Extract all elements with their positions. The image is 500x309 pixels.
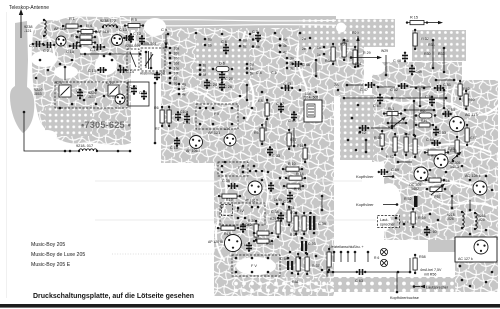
- resistor R20: [254, 220, 258, 241]
- resistor R15: [406, 21, 428, 25]
- copper trace: long horizontal bus traces: [120, 16, 336, 30]
- capacitor C33: [267, 146, 273, 156]
- coil 9218-026: [461, 211, 464, 229]
- resistor R42: [458, 80, 462, 100]
- IF can pad field (left, dial area): [45, 106, 92, 136]
- solder pins 4a-3c: [279, 38, 294, 71]
- svg-text:R 37: R 37: [312, 264, 320, 268]
- svg-text:F II: F II: [214, 112, 219, 116]
- svg-text:R23: R23: [288, 206, 294, 210]
- copper trace: right patch near output stage: [428, 234, 458, 252]
- wire W29: [385, 55, 388, 76]
- resistor R1: [62, 24, 82, 28]
- capacitor C42: [240, 223, 246, 233]
- svg-text:7305-504: 7305-504: [141, 42, 156, 46]
- copper trace: antenna strip: [10, 21, 34, 133]
- capacitor C18b: [174, 137, 180, 147]
- capacitor C16: [93, 44, 106, 50]
- wire R33 vertical: [432, 39, 435, 70]
- svg-text:C 14: C 14: [126, 70, 134, 74]
- capacitor C51: [434, 85, 445, 91]
- svg-text:Druckschaltungsplatte, auf die: Druckschaltungsplatte, auf die Lötseite …: [33, 293, 194, 300]
- svg-text:AC 127 k: AC 127 k: [458, 257, 473, 261]
- copper trace: right lower area: [384, 158, 498, 240]
- svg-text:C 3: C 3: [56, 81, 62, 85]
- wire: C56 bus: [405, 109, 434, 111]
- svg-text:Netzteilanschlußbu. +: Netzteilanschlußbu. +: [329, 245, 364, 249]
- svg-text:C 47: C 47: [360, 88, 368, 92]
- svg-text:12: 12: [220, 205, 224, 209]
- wire: speaker link: [469, 200, 471, 210]
- wire: volume link: [413, 101, 415, 135]
- svg-text:C 55: C 55: [447, 108, 455, 112]
- resistor R14: [285, 176, 306, 180]
- resistor R60 (oval): [415, 113, 437, 118]
- transformer box F IV: [220, 203, 265, 225]
- svg-text:R 21: R 21: [290, 211, 297, 215]
- resistor R21: [294, 212, 298, 235]
- svg-text:C49: C49: [415, 70, 422, 74]
- capacitor C52: [398, 83, 409, 89]
- svg-text:4e: 4e: [182, 93, 186, 97]
- wire: R42 top link: [436, 79, 454, 81]
- capacitor C4: [77, 89, 83, 100]
- resistor RL8: [425, 178, 445, 182]
- resistor R27: [253, 239, 273, 243]
- resistor R10: [282, 167, 303, 171]
- svg-text:C 63: C 63: [355, 279, 363, 283]
- capacitor C44: [246, 242, 252, 252]
- svg-text:Laut-: Laut-: [380, 218, 389, 222]
- svg-text:C 46: C 46: [302, 63, 310, 67]
- svg-text:2a: 2a: [302, 37, 306, 41]
- label 1a: [323, 46, 326, 49]
- svg-text:F V: F V: [251, 264, 257, 268]
- wire R29 vertical arrow: [356, 36, 359, 67]
- label 2a: [309, 37, 312, 40]
- svg-text:R 52: R 52: [404, 197, 412, 201]
- svg-text:C 8: C 8: [256, 71, 262, 75]
- resistor R34: [331, 43, 335, 65]
- resistor R37: [327, 248, 331, 271]
- svg-text:C 60: C 60: [429, 230, 437, 234]
- transistor T5 AF126: [248, 181, 262, 195]
- svg-text:sprecher: sprecher: [380, 223, 396, 227]
- svg-text:C 51: C 51: [443, 83, 451, 87]
- resistor R31: [353, 46, 357, 68]
- svg-text:W29: W29: [381, 49, 388, 53]
- capacitor C23: [141, 90, 147, 100]
- output transistor box: [455, 237, 497, 262]
- wire lautsprecher lead: [414, 286, 420, 288]
- svg-text:RL8: RL8: [443, 179, 450, 183]
- capacitor C49: [409, 65, 415, 76]
- svg-text:C 53: C 53: [308, 242, 316, 246]
- svg-text:AF 106 I: AF 106 I: [186, 149, 200, 153]
- copper trace: connector run: [372, 62, 462, 80]
- svg-text:6b: 6b: [208, 44, 212, 48]
- IF can pad field (mid right): [340, 95, 374, 160]
- svg-text:C 24: C 24: [209, 83, 217, 87]
- capacitor C56: [429, 96, 435, 107]
- page edge artifact: [6, 12, 8, 298]
- capacitor C59: [378, 169, 389, 175]
- capacitor C37: [278, 103, 284, 113]
- svg-text:3a: 3a: [290, 57, 294, 61]
- antenna arrow: [19, 9, 23, 38]
- svg-text:5f: 5f: [203, 73, 206, 77]
- svg-text:C 34: C 34: [283, 200, 291, 204]
- svg-text:4g: 4g: [182, 83, 186, 87]
- IF can pad field (oscillator block): [299, 19, 395, 47]
- copper trace: right middle area: [372, 80, 498, 162]
- resistor R6: [160, 106, 164, 127]
- svg-text:R16: R16: [297, 144, 304, 148]
- resistor R46: [415, 123, 434, 127]
- svg-text:C42: C42: [245, 223, 252, 227]
- coil L2 9238-172: [102, 25, 118, 28]
- capacitor C12: [128, 33, 134, 43]
- svg-text:C 37: C 37: [276, 102, 284, 106]
- svg-text:7A: 7A: [334, 83, 339, 87]
- svg-text:AF 126 II: AF 126 II: [245, 199, 258, 203]
- wire R29 horizontal arrow: [350, 56, 382, 59]
- resistor R26: [253, 231, 273, 235]
- svg-text:4a: 4a: [283, 38, 287, 42]
- page rule line: [95, 219, 376, 221]
- svg-text:1c: 1c: [317, 53, 321, 57]
- svg-text:R25: R25: [270, 217, 276, 221]
- svg-text:D 6: D 6: [219, 62, 225, 66]
- svg-text:C 39: C 39: [318, 222, 326, 226]
- transistor circle left of C21: [115, 94, 125, 104]
- svg-text:1a 5b: 1a 5b: [274, 198, 282, 202]
- svg-text:C 52: C 52: [390, 88, 398, 92]
- capacitor C24: [204, 79, 210, 89]
- transformer box F V: [232, 255, 280, 276]
- svg-text:AC 117r: AC 117r: [465, 113, 479, 117]
- svg-text:•7305-625 •: •7305-625 •: [81, 120, 131, 130]
- capacitor C7: [255, 32, 261, 43]
- svg-text:F IV: F IV: [237, 209, 244, 213]
- svg-text:10c: 10c: [174, 57, 180, 61]
- transistor T2 AF116: [112, 35, 123, 46]
- label 2b: [309, 47, 312, 50]
- svg-text:C 12: C 12: [133, 32, 141, 36]
- svg-text:R 2: R 2: [71, 34, 77, 38]
- svg-text:C 18: C 18: [170, 146, 178, 150]
- transistor T7 AC117: [450, 117, 465, 132]
- svg-text:C 15: C 15: [88, 69, 96, 73]
- capacitor C26: [219, 81, 225, 91]
- resistor R8: [265, 99, 269, 120]
- svg-text:Kopfhörer: Kopfhörer: [356, 174, 374, 179]
- wire: headphone jack vertical: [409, 258, 411, 272]
- svg-text:5c: 5c: [250, 67, 254, 71]
- svg-text:R30: R30: [424, 52, 431, 56]
- wire: antenna ground run: [24, 112, 79, 151]
- IF transformer box F II: [196, 104, 238, 129]
- resistor R50: [464, 90, 468, 110]
- svg-text:R19: R19: [226, 198, 233, 202]
- resistor R19: [218, 194, 241, 198]
- resistor R44: [404, 133, 408, 156]
- resistor R54: [424, 150, 449, 155]
- tuning gang dashed box: [55, 82, 127, 108]
- svg-text:C 33: C 33: [272, 154, 280, 158]
- wire audio bus: [378, 86, 395, 88]
- svg-text:C 23: C 23: [139, 91, 147, 95]
- svg-text:C10a: C10a: [180, 110, 188, 114]
- resistor R17: [287, 129, 291, 150]
- transistor T11 AC127: [474, 240, 488, 254]
- svg-text:R 11: R 11: [294, 187, 301, 191]
- junction dots field: [167, 33, 170, 36]
- svg-text:C 58: C 58: [426, 138, 434, 142]
- svg-text:R56: R56: [450, 149, 457, 153]
- wire: rail C51-C56: [443, 90, 445, 108]
- resistor R5: [124, 24, 144, 28]
- transistor T8 OC305: [434, 154, 448, 168]
- resistor R22: [302, 212, 306, 235]
- svg-text:C 59: C 59: [391, 168, 399, 172]
- potentiometer R51: [387, 117, 408, 129]
- svg-text:C 44: C 44: [240, 243, 248, 247]
- resistor R18: [217, 226, 239, 230]
- svg-text:5d: 5d: [250, 63, 254, 67]
- wire: F V feed: [326, 267, 328, 277]
- solder pins 4g-4e: [178, 83, 186, 97]
- resistor R3: [76, 41, 96, 45]
- wire: AGC bus: [344, 97, 446, 99]
- wire: front-end rail: [80, 53, 140, 55]
- svg-text:C 13: C 13: [119, 28, 127, 32]
- svg-text:C 61: C 61: [373, 104, 381, 108]
- page rule line: [95, 180, 362, 182]
- svg-text:R17: R17: [290, 138, 297, 142]
- transformer box F IV inner: [222, 205, 233, 216]
- svg-text:AF 116: AF 116: [54, 27, 66, 31]
- wire C9 arrow: [164, 34, 168, 48]
- svg-text:mit R56: mit R56: [424, 273, 436, 277]
- capacitor C54: [287, 257, 294, 275]
- capacitor C14: [117, 67, 127, 73]
- svg-text:R50: R50: [468, 98, 475, 102]
- svg-text:7314- 505: 7314- 505: [303, 96, 318, 100]
- transistor T6 output driver: [225, 235, 242, 252]
- resistor RL1: [383, 112, 402, 116]
- wire: gang feed: [64, 67, 66, 80]
- svg-text:C 1: C 1: [29, 44, 35, 48]
- IF transformer box F III: [218, 162, 248, 176]
- svg-text:10d: 10d: [174, 62, 180, 66]
- capacitor C61: [377, 94, 383, 105]
- capacitor C34: [287, 192, 293, 203]
- resistor R11: [283, 184, 304, 188]
- svg-text:4mA bei 7,5V: 4mA bei 7,5V: [420, 268, 442, 272]
- wire R15 out arrow: [427, 21, 443, 24]
- svg-text:C 18: C 18: [66, 50, 74, 54]
- svg-text:Kopfhörer: Kopfhörer: [356, 202, 374, 207]
- svg-text:9238-172: 9238-172: [100, 19, 116, 23]
- resistor R47: [465, 124, 469, 146]
- svg-text:RL1: RL1: [388, 107, 394, 111]
- svg-text:9208-009: 9208-009: [125, 44, 140, 48]
- wire: output link: [451, 196, 453, 208]
- wire: IF link: [265, 121, 267, 131]
- svg-text:6d: 6d: [243, 39, 247, 43]
- svg-text:C 16: C 16: [90, 48, 98, 52]
- capacitor C43: [281, 85, 294, 91]
- coil L1 9238-121: [43, 19, 46, 37]
- capacitor C11: [139, 35, 145, 45]
- copper trace: bottom right area: [455, 260, 498, 292]
- wire: ground run to board: [97, 150, 131, 152]
- wire lead: [383, 204, 397, 206]
- svg-text:104: 104: [224, 127, 230, 131]
- dial lamp 1: [380, 248, 387, 255]
- wire: mixer link: [246, 85, 248, 100]
- resistor R59: [411, 208, 415, 228]
- capacitor C53: [433, 126, 439, 136]
- svg-text:C 25: C 25: [183, 121, 190, 125]
- svg-text:Music-Boy 205: Music-Boy 205: [31, 242, 65, 248]
- wire: bias link: [365, 140, 367, 152]
- svg-text:11: 11: [174, 77, 178, 81]
- svg-text:R29: R29: [352, 31, 359, 35]
- svg-text:C 21: C 21: [106, 81, 114, 85]
- svg-text:R33: R33: [438, 52, 445, 56]
- svg-text:R47: R47: [470, 136, 477, 140]
- svg-text:4b: 4b: [283, 44, 287, 48]
- svg-text:C 20: C 20: [225, 77, 233, 81]
- svg-text:R44: R44: [404, 132, 411, 136]
- svg-text:C 48: C 48: [393, 59, 401, 63]
- wire: C39 link: [321, 196, 323, 210]
- solder pins 6a-5b: [204, 38, 260, 50]
- svg-text:R 5: R 5: [131, 18, 137, 22]
- solder pins 6j-5e: [199, 63, 254, 78]
- capacitor C62: [359, 125, 370, 131]
- svg-text:1a: 1a: [317, 46, 321, 50]
- svg-text:AF 116: AF 116: [97, 30, 109, 34]
- wire: audio coupling: [398, 161, 412, 163]
- resistor R58: [413, 254, 417, 274]
- resistor R32: [413, 29, 417, 50]
- transistor T4: [224, 134, 236, 146]
- leader line (Music-Boy de Luxe): [112, 253, 330, 255]
- dial lamp 2: [380, 259, 387, 266]
- svg-text:10f: 10f: [174, 72, 179, 76]
- wire R33b vertical: [443, 47, 446, 74]
- box C22/C23: [128, 82, 149, 106]
- capacitor C63: [356, 269, 367, 275]
- svg-text:R 43: R 43: [386, 155, 394, 159]
- capacitor C53b: [301, 237, 308, 255]
- pins in F II: [199, 107, 202, 110]
- resistor R49: [413, 135, 417, 158]
- wire lead: [383, 176, 393, 178]
- resistor R39: [305, 253, 309, 275]
- wire to C47: [347, 84, 363, 86]
- capacitor C41: [291, 111, 297, 121]
- svg-text:AF 121: AF 121: [208, 131, 220, 135]
- potentiometer R57: [426, 184, 447, 196]
- connector pins (Netzteil): [333, 251, 370, 262]
- svg-text:R9: R9: [254, 131, 259, 135]
- capacitor C13: [154, 72, 160, 81]
- resistor R9: [260, 124, 264, 145]
- wire: osc link: [315, 60, 317, 76]
- module 104 7314-505: [304, 100, 322, 122]
- svg-text:R 14: R 14: [296, 172, 304, 176]
- pins F IV: [237, 217, 240, 220]
- trimmer C21: [108, 85, 119, 96]
- svg-text:R 59: R 59: [418, 216, 426, 220]
- svg-text:140.3: 140.3: [450, 165, 459, 169]
- svg-text:C 26: C 26: [224, 85, 232, 89]
- svg-text:R 53: R 53: [374, 136, 382, 140]
- svg-text:Music-Boy de Luxe 205: Music-Boy de Luxe 205: [31, 252, 85, 258]
- wire: bottom supply run 2: [366, 271, 410, 273]
- svg-text:4c: 4c: [283, 51, 287, 55]
- capacitor C2: [43, 42, 56, 48]
- svg-text:-121: -121: [24, 29, 32, 33]
- svg-text:R 10: R 10: [288, 162, 296, 166]
- svg-text:1402: 1402: [411, 187, 419, 191]
- svg-text:R8: R8: [258, 99, 263, 103]
- capacitor C22: [131, 85, 137, 95]
- svg-text:5e: 5e: [250, 71, 254, 75]
- transistor T10 AC128: [473, 181, 487, 195]
- svg-text:-553: -553: [34, 92, 42, 96]
- capacitor C39: [309, 212, 315, 235]
- svg-text:C 53: C 53: [438, 131, 446, 135]
- svg-text:Music-Boy 205 E: Music-Boy 205 E: [31, 262, 71, 268]
- svg-text:R 4: R 4: [86, 24, 92, 28]
- svg-text:8g: 8g: [174, 82, 178, 86]
- resistor R7: [167, 106, 171, 127]
- capacitor C38: [278, 212, 284, 222]
- capacitor C10a: [175, 111, 181, 121]
- svg-text:C 41: C 41: [288, 119, 296, 123]
- capacitor C46: [292, 61, 303, 67]
- trimmer R56: [452, 152, 462, 163]
- svg-text:C 7: C 7: [252, 30, 258, 34]
- svg-text:C 2: C 2: [43, 49, 49, 53]
- capacitor C55: [442, 111, 452, 117]
- svg-text:4f: 4f: [182, 88, 185, 92]
- svg-text:3c: 3c: [290, 67, 294, 71]
- capacitor C40: [268, 182, 274, 192]
- svg-text:R 6: R 6: [374, 256, 379, 260]
- capacitor C47: [365, 82, 376, 88]
- capacitor C36: [228, 183, 239, 189]
- svg-text:Abstimmaggregat: Abstimmaggregat: [140, 72, 165, 76]
- transistor T3 AF106: [190, 136, 203, 149]
- leader dashed: [397, 221, 409, 223]
- svg-text:R 32: R 32: [421, 37, 429, 41]
- label Lautsprecher arrow: [420, 285, 425, 288]
- wire from C62: [371, 127, 392, 129]
- transistor T1 AF116: [56, 36, 66, 46]
- wire: driver link: [391, 112, 393, 126]
- svg-text:R 26: R 26: [266, 242, 273, 246]
- svg-text:C 6: C 6: [221, 40, 227, 44]
- svg-text:Kopfhörerbuchse: Kopfhörerbuchse: [390, 296, 419, 300]
- svg-text:R 15: R 15: [410, 16, 418, 20]
- svg-text:C 36: C 36: [222, 179, 230, 183]
